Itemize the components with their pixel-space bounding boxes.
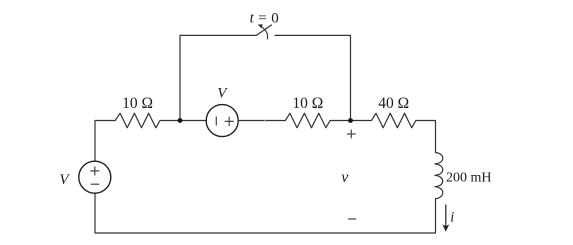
svg-text:10 Ω: 10 Ω <box>292 95 323 112</box>
svg-text:v: v <box>341 169 349 186</box>
svg-text:40 Ω: 40 Ω <box>378 95 409 112</box>
svg-text:200 mH: 200 mH <box>446 170 492 185</box>
svg-text:i: i <box>450 210 454 226</box>
svg-text:t = 0: t = 0 <box>250 11 279 27</box>
svg-text:10 Ω: 10 Ω <box>122 95 153 112</box>
